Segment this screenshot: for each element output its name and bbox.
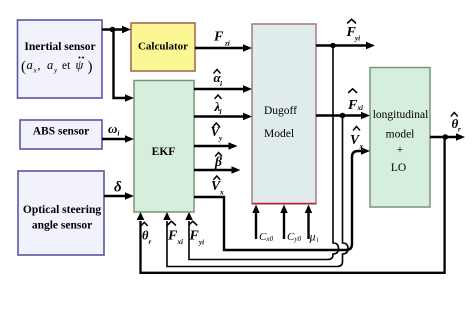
label: F hat yi (top): [346, 19, 361, 42]
wire: F_xi feedback down with hop, to EKF bottom: [163, 116, 348, 267]
wire: EKF to Dugoff (lambda_i): [194, 113, 252, 120]
svg-text:et: et: [62, 60, 71, 72]
wire: longitudinal model output theta_r: [430, 133, 465, 140]
svg-text:yi: yi: [198, 239, 204, 247]
label: F hat yi (EKF bottom input): [189, 221, 205, 246]
svg-text:xi: xi: [357, 104, 364, 112]
svg-text:F: F: [213, 30, 224, 45]
svg-text:F: F: [167, 229, 178, 244]
svg-text:Dugoff: Dugoff: [264, 105, 297, 117]
block: longitudinal model + LO: [370, 68, 430, 208]
wire: theta_r feedback down and left to EKF bottom: [137, 137, 445, 273]
svg-text:V: V: [350, 132, 360, 147]
svg-text:r: r: [149, 238, 152, 246]
label: V hat x (into longitudinal model): [350, 127, 364, 151]
label: theta hat r (right): [451, 113, 461, 134]
label: lambda hat i: [214, 95, 223, 116]
node: junction on F_yi line: [330, 43, 336, 49]
svg-text:F: F: [189, 229, 200, 244]
label: theta hat r (EKF bottom input): [141, 222, 151, 246]
svg-text:model: model: [386, 129, 415, 141]
svg-text:,: ,: [38, 58, 41, 72]
block: Optical steering angle sensor: [18, 171, 104, 255]
wire: Dugoff output F_xi to longitudinal model: [316, 112, 370, 119]
svg-text:LO: LO: [391, 162, 406, 174]
wire: EKF V_x path down and right to longitudinal model: [194, 147, 370, 250]
svg-text:Model: Model: [264, 128, 294, 140]
svg-text:i: i: [317, 236, 319, 244]
svg-text:a: a: [27, 58, 33, 72]
svg-text:a: a: [47, 58, 53, 72]
block: Calculator: [131, 23, 195, 71]
svg-text:r: r: [458, 126, 461, 134]
node: junction on theta_r line: [443, 134, 449, 140]
svg-text:(: (: [21, 59, 26, 75]
svg-text:μ: μ: [309, 230, 316, 244]
svg-text:xi: xi: [177, 238, 184, 246]
label: F hat xi (middle): [347, 89, 363, 113]
svg-text:δ: δ: [114, 180, 122, 196]
wire: EKF beta (short arrow): [194, 166, 241, 173]
svg-text:Inertial sensor: Inertial sensor: [24, 41, 95, 53]
svg-text:y: y: [218, 134, 223, 143]
wire: EKF to Dugoff (alpha_i): [194, 85, 252, 92]
svg-text:x: x: [219, 188, 224, 197]
wire: ABS sensor to EKF: [102, 135, 134, 142]
svg-text:angle sensor: angle sensor: [32, 220, 92, 232]
svg-text:+: +: [397, 144, 404, 156]
wire: optical sensor to EKF: [104, 192, 134, 199]
svg-text:x0: x0: [266, 235, 274, 243]
svg-text:longitudinal: longitudinal: [373, 109, 429, 121]
wire: Dugoff output F_yi (top): [316, 42, 375, 49]
svg-text:ABS sensor: ABS sensor: [33, 126, 90, 138]
block: ABS sensor: [20, 120, 102, 149]
wire: calculator to Dugoff (F_zi): [195, 44, 252, 51]
svg-text:F: F: [347, 98, 358, 113]
wire: C_x0 input arrow into Dugoff bottom: [252, 205, 259, 240]
svg-text:EKF: EKF: [152, 146, 176, 158]
wire: EKF V_y (short arrow): [194, 142, 238, 149]
label: beta hat: [214, 153, 222, 170]
svg-text:x: x: [359, 142, 364, 151]
svg-text:zi: zi: [224, 40, 230, 48]
block: Dugoff Model: [252, 24, 316, 204]
wire: F_yi feedback down with hop, to EKF bottom: [185, 46, 338, 260]
svg-text:ψ: ψ: [76, 58, 84, 72]
node: junction on F_xi line: [340, 113, 346, 119]
label: alpha hat i: [214, 70, 224, 89]
svg-text:Calculator: Calculator: [138, 41, 188, 53]
label: F hat xi (EKF bottom input): [167, 221, 183, 246]
wire: branch down from inertial junction to EKF: [114, 30, 135, 102]
svg-text:y0: y0: [294, 235, 302, 243]
svg-text:): ): [88, 59, 93, 75]
wire: C_y0 input arrow into Dugoff bottom: [280, 205, 287, 240]
node: junction on inertial line: [110, 27, 116, 33]
block: EKF: [134, 81, 194, 213]
block: Inertial sensor: [18, 20, 103, 98]
wire: mu input arrow into Dugoff bottom: [305, 205, 312, 240]
label: V hat y: [211, 123, 224, 143]
label: V hat x (EKF output): [211, 176, 224, 197]
svg-text:yi: yi: [354, 35, 360, 43]
svg-text:Optical steering: Optical steering: [23, 204, 101, 216]
wire: inertial sensor to calculator: [102, 26, 131, 33]
